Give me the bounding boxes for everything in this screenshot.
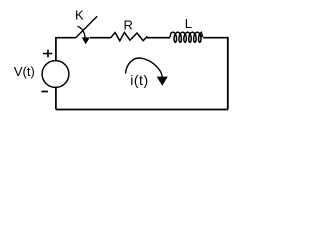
inductor L coil — [170, 32, 203, 42]
svg-text:R: R — [124, 17, 133, 32]
svg-text:V(t): V(t) — [14, 64, 35, 79]
wire left upper vertical — [55, 38, 57, 61]
voltage source V(t) circle — [42, 61, 69, 88]
wire left lower vertical — [55, 87, 57, 109]
wire inductor-to-corner — [203, 37, 228, 39]
wire right vertical — [227, 37, 229, 110]
wire switch-to-resistor — [90, 37, 111, 39]
current arrowhead — [157, 77, 168, 86]
svg-text:i(t): i(t) — [130, 72, 149, 88]
minus sign — [41, 91, 48, 93]
switch K closing arrow — [78, 26, 86, 38]
wire top-left segment — [56, 37, 76, 40]
wire bottom — [56, 109, 228, 111]
plus sign — [43, 50, 52, 58]
current i(t) arc — [126, 58, 163, 77]
resistor R zigzag — [111, 32, 148, 40]
svg-text:K: K — [75, 7, 84, 22]
wire resistor-to-inductor — [147, 37, 170, 39]
svg-text:L: L — [185, 16, 192, 31]
switch K blade — [76, 16, 97, 37]
